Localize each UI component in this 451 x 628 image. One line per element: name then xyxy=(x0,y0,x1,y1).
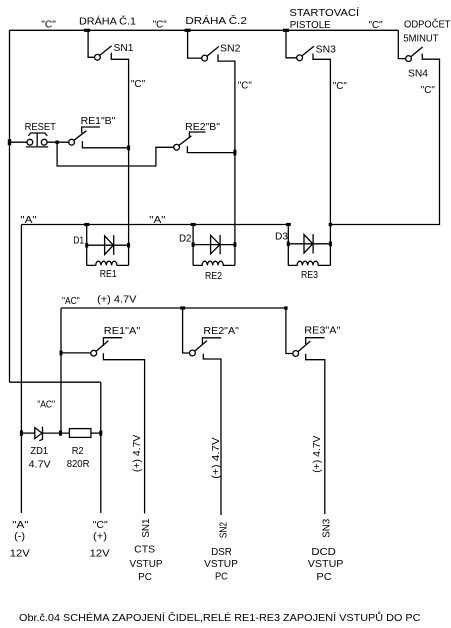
junction on bus at SN2 xyxy=(185,29,191,32)
svg-text:"C": "C" xyxy=(369,20,384,31)
svg-text:"AC": "AC" xyxy=(62,296,80,307)
svg-text:12V: 12V xyxy=(90,548,110,559)
svg-text:RE2"A": RE2"A" xyxy=(203,326,239,337)
svg-text:(+) 4.7V: (+) 4.7V xyxy=(211,437,222,479)
svg-text:DSR: DSR xyxy=(211,547,232,558)
wire ZD1 anode from A line xyxy=(21,432,34,434)
wire SN4 contact down and left to D3 top xyxy=(330,54,439,225)
relay contact RE1"A" arm xyxy=(96,341,108,352)
relay contact RE1"B" arm xyxy=(74,131,87,141)
svg-text:5MINUT: 5MINUT xyxy=(403,33,439,44)
relay contact RE1"A" fixed contact xyxy=(103,338,122,346)
wire AC bus xyxy=(61,307,286,309)
wire to RESET button xyxy=(10,141,28,143)
svg-text:(+): (+) xyxy=(93,532,107,543)
wire D1 left vertical xyxy=(86,225,88,266)
svg-text:VSTUP: VSTUP xyxy=(204,559,238,570)
svg-text:SN3: SN3 xyxy=(316,44,336,55)
svg-text:DCD: DCD xyxy=(311,547,336,558)
svg-text:(+) 4.7V: (+) 4.7V xyxy=(132,434,143,472)
junction R2 right vertical xyxy=(99,431,102,436)
wire D3 diode line xyxy=(288,243,330,245)
svg-text:R2: R2 xyxy=(72,446,84,457)
wire bus to SN2 xyxy=(188,30,202,58)
wire RESET node down and right to RE2B xyxy=(57,142,174,166)
svg-text:"C": "C" xyxy=(421,85,435,96)
relay coil RE3 xyxy=(288,261,330,265)
junction AC at RE1A xyxy=(60,351,63,356)
junction AC end at RE3A xyxy=(284,306,287,309)
svg-text:RE2: RE2 xyxy=(205,271,222,282)
junction AC at RE2A xyxy=(180,306,185,309)
svg-text:"C": "C" xyxy=(41,20,56,31)
svg-text:SN1: SN1 xyxy=(114,43,134,54)
switch SN2 circle xyxy=(202,55,208,61)
svg-text:"C": "C" xyxy=(153,20,167,31)
wire D2 diode line xyxy=(193,244,235,246)
svg-text:RE1: RE1 xyxy=(100,269,117,280)
wire AC down to RE3A xyxy=(286,308,293,354)
svg-text:820R: 820R xyxy=(67,459,90,470)
junction AC at ZD1/R2 xyxy=(59,431,62,436)
relay contact RE1"B" fixed contact xyxy=(82,127,100,133)
junction D1 anode xyxy=(85,243,88,248)
svg-text:SN3: SN3 xyxy=(322,519,333,538)
svg-text:4.7V: 4.7V xyxy=(29,460,51,471)
junction A bus at D2 xyxy=(191,223,196,226)
svg-text:RE3"A": RE3"A" xyxy=(304,326,340,337)
svg-text:PC: PC xyxy=(215,572,228,583)
pushbutton RESET xyxy=(27,139,33,145)
svg-text:VSTUP: VSTUP xyxy=(129,559,162,570)
wire ZD1 cathode to R2 xyxy=(43,432,70,434)
junction on bus at SN3 xyxy=(283,29,289,32)
svg-text:(+) 4.7V: (+) 4.7V xyxy=(97,295,137,306)
junction on left vertical at RESET xyxy=(8,139,11,145)
svg-text:D2: D2 xyxy=(179,234,192,245)
svg-text:12V: 12V xyxy=(10,548,30,559)
junction D1 cathode xyxy=(127,243,130,248)
wire D1 diode line xyxy=(87,244,129,246)
junction D3 cathode xyxy=(329,242,332,247)
svg-text:SN2: SN2 xyxy=(218,522,229,539)
wire bus to SN1 xyxy=(88,30,94,57)
wire R2 right to vertical xyxy=(91,432,101,434)
wire AC down to RE2A xyxy=(183,308,190,353)
svg-text:DRÁHA Č.1: DRÁHA Č.1 xyxy=(79,14,136,27)
svg-text:(+) 4.7V: (+) 4.7V xyxy=(312,435,323,472)
svg-text:RE1"A": RE1"A" xyxy=(104,326,141,337)
diode D3 triangle xyxy=(304,235,313,254)
wire top bus "C" xyxy=(10,29,399,31)
wire SN3 contact down to RE3 coil xyxy=(313,54,330,266)
svg-text:SN1: SN1 xyxy=(141,518,152,537)
wire D2 left vertical xyxy=(192,225,194,266)
relay contact RE2"A" fixed contact xyxy=(202,338,221,345)
svg-text:RE1"B": RE1"B" xyxy=(81,116,116,127)
wire RE1A contact down to CTS line xyxy=(103,353,144,513)
wire to RE1A xyxy=(61,352,91,354)
svg-text:"AC": "AC" xyxy=(37,400,55,411)
relay contact RE2"B" circle xyxy=(174,144,180,150)
junction RE2B to C line xyxy=(233,150,236,156)
relay contact RE3"A" fixed contact xyxy=(306,338,325,344)
svg-text:"C": "C" xyxy=(131,79,146,90)
resistor R2 body xyxy=(69,429,91,438)
switch SN1 arm xyxy=(100,46,112,56)
svg-text:SN4: SN4 xyxy=(408,69,428,80)
wire A bus xyxy=(21,224,288,226)
junction A bus end at D3 xyxy=(286,223,291,226)
wire RE2B contact to SN2 C line xyxy=(187,146,235,153)
svg-text:D1: D1 xyxy=(73,235,84,246)
diode D1 triangle xyxy=(105,236,114,255)
svg-text:ODPOČET: ODPOČET xyxy=(404,18,451,31)
junction D2 cathode xyxy=(233,242,236,247)
wire R2 right vertical down xyxy=(100,382,102,513)
svg-text:VSTUP: VSTUP xyxy=(308,559,344,570)
junction on bus at SN1 xyxy=(84,29,90,32)
switch SN1 circle xyxy=(95,54,101,60)
svg-text:RESET: RESET xyxy=(25,122,57,133)
svg-text:PC: PC xyxy=(316,572,332,583)
wire SN2 contact down to RE2 coil xyxy=(218,54,235,265)
relay contact RE3"A" arm xyxy=(298,341,310,352)
wire bus to SN3 xyxy=(286,30,297,58)
wire RE3A contact down to DCD line xyxy=(306,354,325,514)
junction after RESET xyxy=(55,141,58,144)
wire horizontal y382 to R2 right vertical xyxy=(10,381,101,383)
zener diode ZD1 cathode bar xyxy=(39,427,42,441)
junction RE1B to C line xyxy=(127,145,130,150)
wire D3 left vertical xyxy=(287,225,289,266)
svg-text:"C": "C" xyxy=(238,81,252,92)
relay coil RE2 xyxy=(193,261,235,265)
diode D1 cathode bar xyxy=(113,235,115,255)
svg-text:RE3: RE3 xyxy=(301,270,318,281)
svg-text:RE2"B": RE2"B" xyxy=(185,122,220,133)
relay contact RE1"A" circle xyxy=(91,350,97,356)
relay contact RE2"A" arm xyxy=(195,341,207,352)
svg-text:PISTOLE: PISTOLE xyxy=(290,20,331,31)
svg-text:"C": "C" xyxy=(93,520,108,531)
junction A bus at D1 xyxy=(84,223,89,226)
wire left vertical from bus down to y382 xyxy=(9,30,11,382)
svg-text:"A": "A" xyxy=(12,520,29,531)
switch SN4 circle xyxy=(406,56,412,62)
junction D3 anode xyxy=(287,242,290,247)
relay contact RE3"A" circle xyxy=(293,351,299,357)
svg-text:D3: D3 xyxy=(275,232,288,243)
junction A line at ZD1 xyxy=(20,430,23,436)
wire RE2A contact down to DSR line xyxy=(203,354,221,515)
wire A bus down left side xyxy=(20,225,22,514)
diode D2 triangle xyxy=(211,235,220,254)
wire bus corner down to SN4 xyxy=(398,30,405,58)
relay contact RE2"B" arm xyxy=(179,136,192,146)
svg-text:PC: PC xyxy=(138,572,152,583)
wire SN1 contact to C line down to RE1 coil xyxy=(111,53,128,266)
svg-text:SN2: SN2 xyxy=(220,44,241,55)
wire AC vertical down to ZD1/R2 junction xyxy=(60,308,62,433)
diode D3 cathode bar xyxy=(312,234,314,253)
relay coil RE1 xyxy=(87,261,129,265)
svg-text:Obr.č.04 SCHÉMA ZAPOJENÍ ČIDEL: Obr.č.04 SCHÉMA ZAPOJENÍ ČIDEL,RELÉ RE1-… xyxy=(19,611,421,624)
switch SN3 circle xyxy=(297,55,303,61)
wire RESET to RE1B xyxy=(47,141,69,143)
relay contact RE1"B" circle xyxy=(69,139,75,145)
relay contact RE2"B" fixed contact xyxy=(189,132,205,137)
switch SN3 arm xyxy=(302,46,314,56)
junction D3 top right xyxy=(329,223,332,226)
zener diode ZD1 triangle xyxy=(35,428,42,439)
switch SN4 arm xyxy=(411,47,423,57)
svg-text:CTS: CTS xyxy=(134,545,155,556)
svg-text:ZD1: ZD1 xyxy=(30,446,48,457)
svg-text:STARTOVACÍ: STARTOVACÍ xyxy=(289,6,359,19)
relay contact RE2"A" circle xyxy=(190,350,196,356)
switch SN2 arm xyxy=(207,47,219,57)
diode D2 cathode bar xyxy=(219,235,221,254)
svg-text:"C": "C" xyxy=(333,81,347,92)
svg-text:(-): (-) xyxy=(14,532,25,543)
svg-text:DRÁHA Č.2: DRÁHA Č.2 xyxy=(185,14,247,27)
junction D2 anode xyxy=(192,242,195,247)
wire RE1B contact to SN1 C line xyxy=(82,141,128,148)
